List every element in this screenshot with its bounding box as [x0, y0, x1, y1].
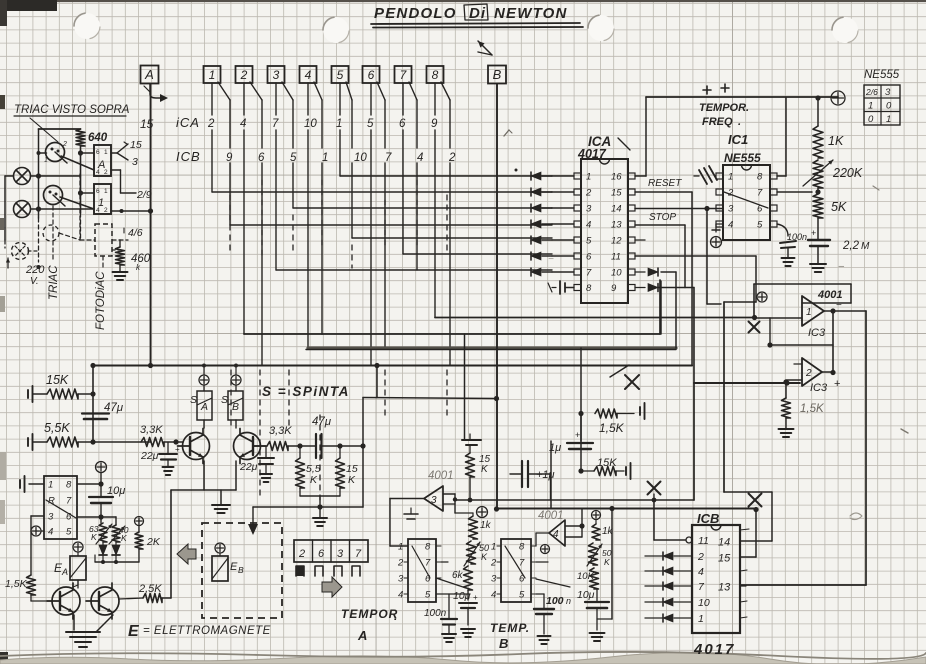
- wire top to resistor: [39, 128, 81, 130]
- svg-text:1K: 1K: [828, 134, 844, 148]
- wire 555 pin7: [777, 189, 821, 194]
- svg-text:22μ: 22μ: [239, 461, 258, 473]
- svg-text:2K: 2K: [146, 536, 161, 548]
- svg-text:5: 5: [519, 590, 525, 601]
- svg-text:6: 6: [519, 574, 525, 585]
- svg-text:IC1: IC1: [728, 132, 748, 147]
- wire A column: [148, 84, 153, 368]
- binding holes: [74, 13, 858, 43]
- x mark near gate1: [749, 322, 760, 333]
- svg-text:11: 11: [698, 535, 709, 547]
- svg-text:11: 11: [611, 252, 621, 263]
- svg-text:B: B: [499, 636, 508, 651]
- diode at ICA pin10: [635, 268, 676, 348]
- trimmer 40K: [109, 525, 129, 544]
- svg-text:−: −: [838, 261, 845, 273]
- svg-text:2: 2: [104, 207, 108, 214]
- svg-text:STOP: STOP: [649, 212, 676, 223]
- wire x377 jog: [363, 363, 380, 446]
- svg-text:8: 8: [425, 542, 431, 553]
- electromagnet EA: [54, 542, 86, 588]
- svg-text:4/6: 4/6: [128, 227, 143, 239]
- svg-text:TEMP.: TEMP.: [490, 621, 530, 635]
- gate 4001 no3: [390, 470, 473, 513]
- IC U4 8pin outline: [44, 476, 77, 539]
- battery cap above 15K: [462, 434, 481, 453]
- lamp L2: [14, 201, 31, 218]
- resistor R 460: [112, 240, 151, 272]
- svg-text:+: +: [834, 378, 840, 390]
- resistor 1K A: [469, 513, 492, 539]
- resistor 5K: [813, 188, 847, 218]
- svg-text:10μ: 10μ: [453, 590, 471, 602]
- wire 555 pin5 to cap: [777, 224, 788, 236]
- wire ICB pin13 stub: [740, 585, 746, 587]
- svg-text:2: 2: [207, 118, 215, 130]
- svg-text:7: 7: [355, 548, 362, 560]
- svg-text:1: 1: [104, 149, 108, 156]
- svg-text:6: 6: [368, 68, 375, 82]
- svg-text:K: K: [310, 474, 318, 486]
- x mark at pin14 wire: [749, 494, 762, 507]
- trimmer 50K B: [587, 543, 612, 567]
- bus wire y348 (smudged): [306, 348, 676, 350]
- wire 555 pin8 to rail: [777, 98, 786, 176]
- cap at 555 pin1: [694, 166, 717, 184]
- svg-text:+: +: [575, 430, 580, 440]
- svg-text:5: 5: [290, 152, 297, 164]
- capacitor 2.2u electrolytic: [808, 218, 870, 272]
- svg-text:FREQ: FREQ: [702, 116, 733, 128]
- svg-text:2,2: 2,2: [842, 240, 860, 252]
- wire ICA pin12 stub: [635, 239, 645, 241]
- svg-text:4017: 4017: [693, 641, 735, 658]
- wire ICA pin16 power: [635, 97, 838, 176]
- svg-text:5K: 5K: [831, 200, 847, 214]
- svg-text:ICB: ICB: [176, 149, 201, 164]
- svg-text:4: 4: [96, 207, 100, 214]
- svg-text:47μ: 47μ: [312, 416, 332, 428]
- lamp L1: [14, 168, 31, 185]
- power plus circle top: [831, 91, 845, 105]
- svg-text:5: 5: [425, 590, 431, 601]
- wire x464 drop: [464, 334, 466, 439]
- svg-text:1: 1: [886, 114, 891, 125]
- svg-text:0: 0: [886, 101, 892, 112]
- wires Q1 Q2 emitters to ground: [171, 461, 236, 513]
- svg-text:3,3K: 3,3K: [140, 424, 163, 436]
- label TEMPOR A: [341, 607, 398, 643]
- svg-text:S: S: [221, 394, 228, 406]
- label minus pencil: [548, 186, 908, 520]
- wire gate3 to IC: [390, 499, 408, 547]
- wires TEMPOR A: [436, 562, 470, 594]
- svg-text:1: 1: [48, 480, 53, 491]
- svg-text:V.: V.: [30, 276, 39, 287]
- label ICA: [176, 115, 200, 130]
- svg-text:A: A: [61, 567, 68, 577]
- wire ICA pin15 RESET net: [635, 192, 692, 366]
- svg-text:2: 2: [805, 368, 812, 379]
- potentiometer 220K: [803, 160, 863, 188]
- svg-text:3: 3: [132, 156, 138, 168]
- svg-text:9: 9: [431, 118, 438, 130]
- svg-text:100n: 100n: [424, 608, 447, 619]
- svg-text:7: 7: [757, 188, 763, 199]
- node box 8: [427, 66, 444, 83]
- plus circle left of gate1: [757, 292, 767, 302]
- wires EA to Q3Q4: [73, 580, 78, 587]
- svg-text:1: 1: [698, 613, 704, 625]
- label 15K under: [0, 0, 1, 1]
- svg-text:1: 1: [586, 172, 591, 183]
- capacitor 1u vertical plates: [510, 441, 555, 487]
- node A box: [141, 66, 159, 84]
- svg-text:1μ: 1μ: [549, 442, 561, 454]
- label S = SPINTA: [262, 384, 350, 399]
- label RESET: [648, 178, 682, 189]
- svg-text:B: B: [238, 565, 244, 575]
- svg-text:9: 9: [611, 283, 617, 294]
- wire ICB pin15: [740, 507, 759, 557]
- U5 pin labels: [397, 542, 441, 601]
- svg-text:RESET: RESET: [648, 178, 682, 189]
- transistor Q1: [178, 429, 210, 464]
- capacitor 22u no1: [140, 439, 180, 475]
- resistor 1.5K vert: [5, 516, 52, 601]
- capacitor 10u A: [453, 590, 478, 637]
- resistor 1.5K h: [595, 403, 645, 435]
- label 220 V.: [6, 258, 45, 287]
- capacitor 10u B: [577, 589, 609, 641]
- svg-text:22μ: 22μ: [140, 450, 159, 462]
- IC ICA 4017 outline: [577, 134, 630, 303]
- resistor 1k B: [592, 520, 614, 540]
- svg-text:5: 5: [757, 220, 763, 231]
- wire fotodiac out 4/6: [112, 227, 143, 240]
- svg-text:5: 5: [586, 236, 592, 247]
- IC U5 TEMPOR A outline: [408, 539, 436, 602]
- trimmer 50K A: [464, 541, 489, 566]
- wire down from gates to ICB area: [455, 383, 694, 500]
- svg-text:8: 8: [757, 172, 763, 183]
- svg-text:5: 5: [367, 118, 374, 130]
- U4 pin8 wire: [77, 462, 107, 487]
- big arrow right gray: [322, 577, 342, 597]
- diode at ICA pin9: [635, 284, 694, 384]
- wire to ICB pin11: [654, 500, 692, 543]
- svg-text:9: 9: [226, 152, 233, 164]
- svg-text:TEMPOR: TEMPOR: [341, 607, 398, 621]
- ground under Q3 Q4: [66, 615, 113, 647]
- svg-text:10: 10: [698, 597, 710, 609]
- label TEMP B: [490, 621, 530, 651]
- svg-text:1: 1: [398, 542, 403, 553]
- wire junction row 562: [95, 555, 139, 564]
- triac T1 (top view): [44, 141, 67, 164]
- svg-text:.: .: [394, 609, 397, 623]
- svg-text:1: 1: [728, 172, 733, 183]
- arrow under title: [478, 41, 492, 55]
- U4 pin6 wire: [77, 514, 116, 525]
- node box 3: [268, 66, 285, 83]
- capacitor 100n B: [534, 594, 571, 644]
- svg-text:K: K: [91, 532, 97, 542]
- label E = ELETTROMAGNETE: [128, 623, 271, 640]
- svg-text:TRIAC: TRIAC: [48, 265, 60, 300]
- svg-text:5,5K: 5,5K: [44, 421, 70, 435]
- IC U6 TEMP B outline: [501, 539, 531, 602]
- resistor 2.5K: [119, 583, 171, 603]
- wire 555 pin4: [712, 224, 723, 232]
- svg-text:M: M: [861, 241, 870, 252]
- svg-text:8: 8: [432, 68, 439, 82]
- svg-text:15: 15: [140, 117, 154, 131]
- long rail y508: [497, 498, 757, 512]
- svg-text:R: R: [48, 496, 55, 507]
- opto 1 box: [94, 184, 111, 214]
- cap at ICA pin8: [548, 281, 574, 294]
- node box 7: [395, 66, 412, 83]
- ICA pin numbers row: [207, 118, 438, 130]
- svg-text:2/9: 2/9: [136, 189, 152, 201]
- dashed drop x53: [52, 206, 54, 260]
- svg-text:TRIAC VISTO SOPRA: TRIAC VISTO SOPRA: [14, 104, 130, 116]
- capacitor 22u no2: [239, 446, 274, 482]
- dashed lamp L3: [12, 243, 29, 260]
- svg-text:100: 100: [546, 595, 564, 607]
- svg-text:3: 3: [398, 574, 404, 585]
- EB dashed enclosure: [202, 523, 282, 618]
- svg-text:12: 12: [611, 236, 622, 247]
- arrow into EB: [248, 507, 258, 535]
- svg-text:2: 2: [240, 68, 248, 82]
- gate2 wiring: [694, 318, 836, 386]
- wire triac2 to opto1: [60, 197, 94, 209]
- svg-text:E: E: [230, 561, 238, 573]
- svg-text:3: 3: [431, 495, 437, 506]
- svg-text:NE555: NE555: [724, 151, 761, 165]
- wires under 5.5K 15K: [253, 446, 363, 526]
- svg-text:1: 1: [806, 307, 812, 318]
- wire ICA pin14 to 555 pin3: [635, 206, 723, 304]
- svg-text:E: E: [128, 623, 140, 640]
- label 4017 bottom: [693, 641, 735, 658]
- wire triac1 to opto: [61, 156, 94, 170]
- x mark pencil mid: [610, 365, 639, 389]
- ICA pins: [574, 172, 635, 295]
- svg-text:7: 7: [586, 268, 592, 279]
- svg-text:1,5K: 1,5K: [5, 578, 28, 590]
- svg-text:8: 8: [586, 283, 592, 294]
- svg-text:1: 1: [44, 157, 48, 164]
- resistor 10K B: [577, 568, 599, 589]
- U6 pin labels: [490, 542, 536, 601]
- svg-text:iCA: iCA: [176, 115, 200, 130]
- wire B col end: [494, 506, 499, 511]
- svg-text:1: 1: [104, 188, 108, 195]
- svg-text:n: n: [566, 596, 571, 606]
- transistor Q2: [234, 429, 266, 464]
- svg-text:220: 220: [25, 264, 45, 276]
- big arrow left gray: [177, 544, 196, 564]
- pencil tick near B: [504, 130, 518, 172]
- sensor box SB: [221, 364, 243, 429]
- node B box: [488, 66, 506, 84]
- svg-text:7: 7: [425, 558, 431, 569]
- wire x612 drop: [597, 509, 612, 620]
- electromagnet EB: [212, 543, 244, 581]
- svg-text:3: 3: [273, 68, 280, 82]
- svg-text:FOTODiAC: FOTODiAC: [95, 271, 107, 330]
- svg-text:IC3: IC3: [808, 327, 826, 339]
- fotodiac dashed box: [59, 174, 112, 256]
- terminal box 2637: [294, 540, 368, 576]
- svg-text:+1μ: +1μ: [536, 469, 555, 481]
- svg-text:4001: 4001: [428, 470, 454, 482]
- svg-text:2: 2: [697, 551, 704, 563]
- svg-text:100n: 100n: [787, 232, 807, 242]
- wire x581 drop: [578, 348, 583, 441]
- svg-text:−: −: [548, 254, 554, 265]
- svg-text:7: 7: [385, 152, 392, 164]
- wires TEMP B right: [536, 562, 570, 587]
- svg-text:16: 16: [611, 172, 622, 183]
- svg-text:4: 4: [48, 527, 53, 538]
- svg-text:4: 4: [553, 529, 559, 540]
- svg-text:2: 2: [727, 188, 734, 199]
- plus marks: [703, 84, 729, 94]
- svg-text:1k: 1k: [480, 520, 492, 531]
- label ICB: [176, 149, 201, 164]
- svg-text:5: 5: [337, 68, 344, 82]
- svg-text:15: 15: [611, 188, 622, 199]
- svg-text:3: 3: [728, 204, 734, 215]
- svg-text:3: 3: [337, 548, 344, 560]
- svg-text:2: 2: [397, 558, 404, 569]
- svg-text:K: K: [121, 533, 127, 543]
- svg-text:NEWTON: NEWTON: [494, 5, 568, 22]
- svg-text:2: 2: [298, 548, 305, 560]
- ground under 460: [113, 265, 128, 280]
- dashed circle T3: [43, 225, 59, 241]
- capacitor 100n A: [424, 594, 457, 642]
- resistor 15K: [28, 363, 96, 442]
- triac T2 (top view): [44, 186, 66, 207]
- svg-text:15K: 15K: [597, 457, 617, 469]
- svg-text:6: 6: [66, 512, 72, 523]
- svg-text:1: 1: [322, 152, 328, 164]
- svg-text:6: 6: [96, 149, 100, 156]
- svg-text:S = SPiNTA: S = SPiNTA: [262, 384, 350, 399]
- svg-text:6: 6: [96, 188, 100, 195]
- svg-text:2,5K: 2,5K: [138, 583, 162, 595]
- svg-text:+: +: [473, 593, 478, 602]
- svg-text:14: 14: [611, 204, 622, 215]
- cap small left gate3: [404, 508, 418, 519]
- svg-text:4: 4: [698, 566, 704, 578]
- sensor box SA: [190, 364, 212, 429]
- svg-text:10K: 10K: [577, 571, 595, 582]
- svg-text:3: 3: [885, 87, 891, 98]
- svg-text:K: K: [481, 552, 488, 562]
- svg-text:4: 4: [417, 152, 423, 164]
- svg-text:A: A: [144, 67, 154, 82]
- svg-text:4017: 4017: [577, 147, 607, 161]
- svg-text:2: 2: [104, 169, 108, 176]
- U4 pin1 wire: [20, 476, 44, 492]
- svg-text:10: 10: [611, 268, 622, 279]
- svg-text:1: 1: [491, 542, 496, 553]
- svg-text:IC3: IC3: [810, 382, 828, 394]
- svg-text:460: 460: [131, 253, 151, 265]
- svg-text:3,3K: 3,3K: [269, 425, 292, 437]
- svg-text:14: 14: [718, 537, 730, 549]
- resistor 1.5K to ground: [779, 381, 825, 437]
- capacitor 1u electro top: [549, 430, 593, 454]
- resistor 2K: [135, 517, 161, 563]
- IC ICB 4017 outline: [692, 511, 740, 633]
- capacitor 47u no1: [82, 402, 124, 445]
- resistor 6K A: [452, 566, 473, 600]
- resistor 3.9K no2: [253, 425, 315, 451]
- svg-text:2: 2: [585, 188, 592, 199]
- wire gate1 out long drop: [741, 311, 866, 585]
- diode D2 down: [112, 542, 120, 562]
- svg-text:4: 4: [398, 590, 403, 601]
- svg-text:2/6: 2/6: [865, 87, 878, 97]
- svg-text:4: 4: [240, 118, 246, 130]
- svg-text:8: 8: [519, 542, 525, 553]
- node box 4: [300, 66, 317, 83]
- capacitor 10u: [89, 484, 125, 523]
- bus wire y365 long rail: [93, 364, 692, 366]
- svg-text:6k: 6k: [452, 570, 464, 581]
- U4 pin labels: [48, 480, 72, 538]
- svg-text:4: 4: [586, 220, 591, 231]
- svg-text:6: 6: [399, 118, 406, 130]
- plus circle above 1k B: [592, 511, 601, 520]
- svg-text:.: .: [738, 116, 741, 128]
- wire ICA pin13 stop: [635, 225, 685, 288]
- label STOP: [649, 212, 676, 223]
- node box 5: [332, 66, 349, 83]
- svg-text:−: −: [836, 300, 842, 311]
- capacitor 47u no2: [312, 416, 366, 458]
- diode D1 down: [99, 542, 107, 562]
- svg-text:10: 10: [354, 152, 367, 164]
- trimmer 63K: [89, 523, 112, 544]
- bus wire y334: [244, 280, 660, 334]
- label 15 under A: [140, 117, 154, 131]
- bus wire y317: [435, 317, 754, 319]
- svg-text:B: B: [493, 67, 502, 82]
- node box 1: [204, 66, 221, 83]
- dashed drop x103: [102, 256, 104, 270]
- wire B column: [496, 84, 498, 509]
- gate 4001 IC3-2: [802, 358, 840, 394]
- arrow from node A: [144, 84, 168, 102]
- wire x724 gate drop: [723, 383, 725, 492]
- svg-text:4001: 4001: [538, 510, 564, 522]
- svg-text:15: 15: [130, 139, 142, 151]
- svg-text:6: 6: [258, 152, 265, 164]
- IC IC1 NE555 outline: [723, 132, 770, 240]
- svg-text:2: 2: [490, 558, 497, 569]
- svg-text:PENDOLO: PENDOLO: [374, 5, 457, 22]
- ICB pin labels: [697, 535, 731, 625]
- diodes at ICA inputs: [531, 172, 574, 276]
